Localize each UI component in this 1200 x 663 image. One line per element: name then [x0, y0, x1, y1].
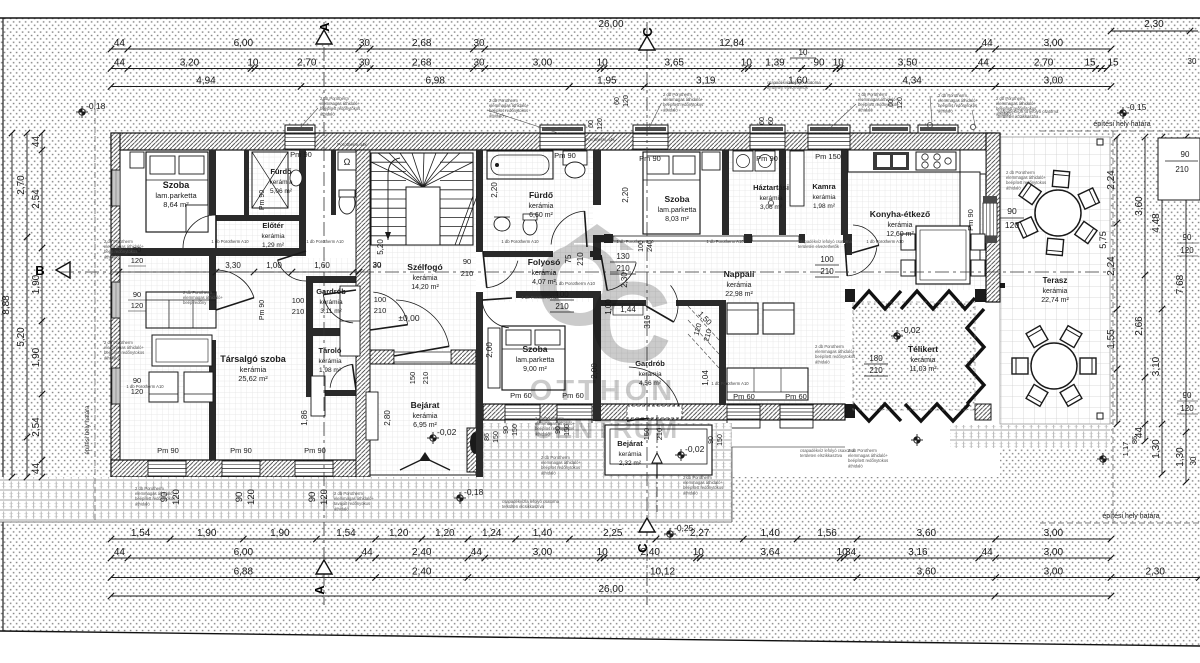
window Pm60 bottom wall (Gardrób2) — [727, 405, 760, 419]
svg-text:5,20: 5,20 — [16, 327, 27, 347]
svg-text:22,98 m²: 22,98 m² — [725, 291, 753, 298]
svg-text:Szélfogó: Szélfogó — [407, 262, 442, 272]
wardrobe dashed Gardrób2 — [688, 306, 719, 368]
svg-text:3,30: 3,30 — [225, 261, 241, 270]
interior wall Konyha/Nappali stub — [845, 242, 852, 255]
bed Szoba3 — [502, 326, 565, 390]
door opening bottom-mid wall — [627, 406, 682, 418]
window Pm90 top wall (Háztartási) — [750, 134, 785, 149]
svg-text:1,90: 1,90 — [31, 347, 42, 367]
svg-text:1 db Porotherm A10: 1 db Porotherm A10 — [501, 239, 539, 244]
svg-text:100: 100 — [374, 295, 387, 304]
svg-text:Pm 90: Pm 90 — [230, 446, 252, 455]
window Pm90 right wall — [983, 203, 997, 236]
svg-text:9,00 m²: 9,00 m² — [523, 366, 547, 373]
interior wall Előtér bottom — [216, 248, 306, 256]
interior wall Fürdő1 left — [244, 150, 249, 215]
svg-text:Nappali: Nappali — [724, 269, 755, 279]
svg-text:3,00: 3,00 — [1044, 547, 1064, 558]
svg-text:2,00: 2,00 — [485, 342, 494, 358]
tiles Társalgó — [120, 258, 209, 460]
svg-text:3,11 m²: 3,11 m² — [320, 308, 342, 315]
svg-text:3,00: 3,00 — [533, 547, 553, 558]
interior wall Szélfogó right — [476, 150, 483, 252]
interior wall Gardrób2 top — [601, 300, 646, 306]
svg-text:2,70: 2,70 — [297, 58, 317, 69]
svg-text:2,30: 2,30 — [1145, 567, 1165, 578]
svg-text:5,06 m²: 5,06 m² — [270, 188, 293, 195]
svg-text:1,00: 1,00 — [266, 261, 282, 270]
svg-text:1 db Porotherm A10: 1 db Porotherm A10 — [711, 381, 749, 386]
svg-text:1 db Porotherm A10: 1 db Porotherm A10 — [866, 239, 904, 244]
svg-text:90: 90 — [1181, 150, 1190, 159]
svg-text:1,86: 1,86 — [300, 410, 309, 426]
svg-text:3,65: 3,65 — [665, 58, 685, 69]
svg-text:Fürdő: Fürdő — [270, 167, 292, 176]
svg-text:120: 120 — [623, 95, 630, 107]
interior wall x593 mid — [593, 235, 601, 260]
tiles Fürdő2+Folyosó — [483, 150, 593, 302]
tiles Gardrób2 — [601, 306, 719, 405]
svg-text:3,60: 3,60 — [1134, 196, 1145, 216]
interior wall Szoba2 bottom opening — [613, 236, 744, 241]
svg-text:2,80: 2,80 — [383, 410, 392, 426]
window schedule box right — [1158, 138, 1200, 200]
svg-text:6,00: 6,00 — [234, 547, 254, 558]
svg-text:120: 120 — [1180, 404, 1194, 413]
svg-text:Ω: Ω — [344, 157, 351, 167]
Télikert corner post NE — [975, 289, 986, 302]
cabinet Tároló — [311, 376, 325, 416]
svg-text:kerámia: kerámia — [269, 179, 293, 186]
interior wall x209 mid — [209, 248, 216, 310]
dining chair left — [901, 234, 915, 250]
svg-text:C: C — [588, 259, 671, 387]
svg-text:120: 120 — [131, 301, 144, 310]
site boundary bottom — [0, 631, 1200, 646]
svg-text:7,68: 7,68 — [1175, 274, 1186, 294]
dining chair left — [901, 260, 915, 276]
paved apron under terrace — [950, 425, 1110, 448]
svg-text:1,40: 1,40 — [760, 528, 780, 539]
svg-text:kerámia: kerámia — [413, 275, 438, 282]
svg-text:-0,02: -0,02 — [685, 444, 705, 454]
svg-text:2,20: 2,20 — [490, 182, 499, 198]
armchair Társalgó 1 — [149, 372, 178, 402]
svg-text:2,30: 2,30 — [1144, 19, 1164, 30]
svg-text:áthidaló: áthidaló — [938, 108, 953, 113]
svg-text:kerámia: kerámia — [618, 451, 642, 458]
interior wall Folyosó bottom — [516, 291, 601, 298]
svg-text:15: 15 — [1107, 58, 1119, 69]
interior wall Fürdő1 right — [299, 150, 306, 251]
interior wall Fürdő2 bottom b — [590, 251, 601, 257]
entry axis — [656, 415, 658, 512]
svg-text:terkülten elcsikkaszíva: terkülten elcsikkaszíva — [502, 504, 545, 509]
leader line 4 — [828, 104, 856, 130]
svg-text:lam.parketta: lam.parketta — [658, 207, 697, 214]
washbasin Fürdő1 — [290, 170, 302, 186]
svg-text:8,03 m²: 8,03 m² — [665, 216, 689, 223]
svg-text:1 db Porotherm A10: 1 db Porotherm A10 — [306, 239, 344, 244]
svg-text:1,30: 1,30 — [1175, 447, 1186, 467]
outer wall left — [111, 133, 120, 477]
armchair Társalgó 2 — [184, 372, 213, 402]
svg-text:A: A — [317, 22, 332, 32]
interior wall Gardrób1/Tároló — [306, 328, 363, 336]
svg-text:2,70: 2,70 — [16, 175, 27, 195]
svg-text:Pm 90: Pm 90 — [554, 151, 576, 160]
svg-text:Konyha-étkező: Konyha-étkező — [870, 209, 930, 219]
svg-text:területén elvezethetők: területén elvezethetők — [798, 244, 840, 249]
washbasin Fürdő2 — [494, 217, 510, 231]
vertical dimension chain — [26, 133, 28, 477]
svg-text:áthidaló: áthidaló — [104, 355, 119, 360]
svg-text:Porotherm 44k: Porotherm 44k — [337, 142, 367, 147]
door Társalgó — [216, 270, 254, 298]
coffee table Társalgó — [152, 335, 212, 366]
wall stub Bejárat1 east — [467, 428, 483, 472]
shutter box above window — [808, 125, 850, 133]
svg-text:1,56: 1,56 — [817, 528, 837, 539]
interior wall Fürdő2 bottom — [483, 251, 553, 257]
svg-text:2,70: 2,70 — [1034, 58, 1054, 69]
svg-text:Pm 90: Pm 90 — [157, 446, 179, 455]
svg-text:építési hely határa: építési hely határa — [85, 405, 91, 455]
interior wall Gardrób1 left — [306, 276, 313, 397]
door Gardrób1 — [323, 295, 353, 323]
leader circle — [768, 200, 773, 205]
garden edge below Télikert — [732, 446, 845, 448]
vertical dimension chain — [41, 133, 43, 477]
interior wall Kamra/Konyha — [841, 150, 848, 235]
interior wall Háztartási/Kamra — [779, 150, 786, 235]
top dim row 3 — [111, 68, 1107, 70]
svg-text:5,20: 5,20 — [376, 239, 385, 255]
staircase Szélfogó — [371, 153, 473, 245]
svg-text:áthidaló: áthidaló — [135, 501, 150, 506]
interior wall Szélfogó right lower — [476, 292, 483, 477]
svg-text:150: 150 — [408, 372, 417, 385]
interior wall post 2 — [744, 234, 752, 243]
svg-text:60: 60 — [759, 117, 766, 125]
dining chair right — [971, 234, 985, 250]
window Pm90 bottom wall 2 — [222, 461, 260, 476]
svg-text:120: 120 — [319, 489, 330, 505]
svg-text:Pm 90: Pm 90 — [304, 446, 326, 455]
terrace edge mark W — [1000, 283, 1005, 288]
kitchen counter side — [960, 172, 980, 260]
terrace table 2 with chairs — [1060, 326, 1082, 348]
svg-text:100: 100 — [292, 296, 305, 305]
svg-text:90: 90 — [307, 492, 318, 503]
svg-text:áthidaló: áthidaló — [858, 107, 873, 112]
svg-text:10: 10 — [741, 58, 753, 69]
svg-text:90: 90 — [708, 436, 715, 444]
washbasin Fürdő2 top — [563, 151, 587, 165]
svg-text:12,84: 12,84 — [719, 38, 744, 49]
svg-text:C: C — [640, 27, 655, 37]
svg-text:44: 44 — [114, 58, 126, 69]
interior wall under Szoba1 — [111, 248, 209, 256]
svg-text:210: 210 — [869, 366, 883, 375]
svg-text:6,88: 6,88 — [234, 567, 254, 578]
építési hely határa left — [94, 100, 96, 522]
door Folyosó-Szélfogó — [487, 261, 518, 288]
door Bejárat1-Szélfogó — [396, 300, 449, 346]
svg-text:3,06 m²: 3,06 m² — [760, 204, 783, 211]
svg-text:120: 120 — [1180, 246, 1194, 255]
építési hely határa right bottom — [1040, 522, 1200, 524]
svg-text:kerámia: kerámia — [1043, 288, 1068, 295]
apron edge — [0, 521, 732, 523]
interior wall Szélfogó left — [356, 150, 370, 477]
svg-text:10: 10 — [833, 58, 845, 69]
tiles Konyha — [848, 150, 986, 290]
svg-text:áthidaló: áthidaló — [104, 254, 119, 259]
terrace corner mark NE — [1097, 139, 1103, 145]
svg-text:2,27: 2,27 — [690, 528, 710, 539]
bottom dim row 1 — [111, 538, 1111, 540]
wardrobe Szoba3 — [488, 328, 500, 388]
svg-text:2,24: 2,24 — [1106, 170, 1117, 190]
interior wall x209 upper — [209, 150, 216, 215]
svg-text:3,00: 3,00 — [533, 58, 553, 69]
svg-text:44: 44 — [978, 58, 990, 69]
bed Szoba1 — [146, 152, 208, 232]
svg-text:területen elszikkasztva: területen elszikkasztva — [800, 453, 843, 458]
sill box below window 4 — [780, 420, 813, 428]
terrace table 1 with chairs — [1052, 170, 1069, 187]
svg-text:3,00: 3,00 — [1044, 528, 1064, 539]
svg-text:120: 120 — [1005, 220, 1019, 230]
bathtub Fürdő2 — [487, 151, 553, 179]
svg-text:2,20: 2,20 — [621, 187, 630, 203]
svg-text:2,54: 2,54 — [31, 417, 42, 437]
shutter box below window — [148, 477, 186, 485]
svg-text:6,95 m²: 6,95 m² — [413, 422, 437, 429]
sofa Nappali — [727, 368, 808, 400]
svg-text:kerámia: kerámia — [318, 358, 342, 365]
svg-text:Pm 90: Pm 90 — [639, 154, 661, 163]
svg-text:25,62 m²: 25,62 m² — [238, 374, 268, 383]
építési hely határa right top — [1040, 130, 1200, 132]
door Szoba3 — [482, 300, 509, 328]
wall Szélfogó/Bejárat1 b — [451, 350, 476, 364]
svg-text:10: 10 — [247, 58, 259, 69]
svg-text:Előtér: Előtér — [262, 221, 283, 230]
svg-text:100: 100 — [820, 255, 834, 264]
sill box below window 2 — [557, 420, 592, 428]
svg-text:44: 44 — [114, 38, 126, 49]
svg-text:1,40: 1,40 — [533, 528, 553, 539]
svg-text:120: 120 — [597, 118, 604, 130]
svg-text:Télikert: Télikert — [908, 344, 938, 354]
right vdim 2 — [1144, 137, 1146, 441]
svg-text:30: 30 — [1188, 57, 1197, 66]
svg-text:90: 90 — [463, 257, 471, 266]
shutter box above window — [285, 125, 315, 133]
svg-text:44: 44 — [114, 547, 126, 558]
svg-text:10: 10 — [693, 547, 705, 558]
svg-text:1,98 m²: 1,98 m² — [319, 367, 342, 374]
leader circle — [927, 122, 932, 127]
svg-text:A: A — [312, 585, 327, 595]
svg-text:44: 44 — [31, 463, 42, 475]
svg-text:3,00: 3,00 — [1044, 38, 1064, 49]
svg-text:B: B — [35, 263, 44, 278]
svg-text:építési hely határa: építési hely határa — [1093, 121, 1150, 128]
interior wall Fürdő1 bottom — [216, 215, 304, 221]
svg-text:3,00: 3,00 — [1044, 76, 1064, 87]
section marker C top — [639, 36, 655, 50]
svg-text:kerámia: kerámia — [812, 194, 836, 201]
svg-text:1,60: 1,60 — [314, 261, 330, 270]
svg-text:áthidaló: áthidaló — [489, 113, 504, 118]
stair void — [406, 187, 440, 245]
svg-text:áthidaló: áthidaló — [334, 506, 349, 511]
svg-text:Szoba: Szoba — [664, 194, 689, 204]
svg-text:áthidaló: áthidaló — [1006, 185, 1021, 190]
svg-text:Gardrób: Gardrób — [316, 287, 346, 296]
svg-text:2,24: 2,24 — [1106, 256, 1117, 276]
svg-text:30: 30 — [473, 38, 485, 49]
svg-text:kerámia: kerámia — [319, 299, 343, 306]
svg-text:3,16: 3,16 — [908, 547, 928, 558]
svg-text:1,24: 1,24 — [482, 528, 502, 539]
stair winder treads — [378, 153, 423, 187]
tiles Háztartási/Kamra — [729, 150, 841, 235]
door Fürdő2 — [551, 211, 584, 244]
interior wall WC partition — [331, 150, 336, 215]
shutter box above window — [870, 125, 910, 133]
svg-text:Terasz: Terasz — [1043, 276, 1068, 285]
window Pm90 top wall (Szoba2) — [633, 134, 668, 149]
dining chair right — [971, 260, 985, 276]
interior wall x593 upper — [593, 150, 601, 205]
window Pm60 bottom wall (Szoba3) — [505, 405, 540, 419]
svg-text:3,00: 3,00 — [1044, 567, 1064, 578]
svg-text:3,60: 3,60 — [917, 528, 937, 539]
section marker B — [56, 262, 70, 278]
svg-text:86: 86 — [484, 433, 491, 441]
Télikert dotted floor — [853, 302, 975, 410]
svg-text:30: 30 — [473, 58, 485, 69]
wardrobe Szoba1 — [186, 205, 208, 232]
svg-text:3,60: 3,60 — [917, 567, 937, 578]
tiles Nappali — [601, 242, 845, 405]
svg-text:kerámia: kerámia — [759, 195, 783, 202]
svg-text:30: 30 — [373, 260, 381, 269]
svg-text:-0,18: -0,18 — [86, 101, 106, 111]
svg-text:Szoba: Szoba — [163, 180, 190, 190]
terrace deck — [1000, 137, 1110, 424]
terrace corner mark SE — [1097, 413, 1103, 419]
tiles Szélfogó — [370, 150, 476, 460]
section line C — [646, 22, 648, 605]
svg-text:2,32 m²: 2,32 m² — [619, 460, 642, 467]
svg-text:14,20 m²: 14,20 m² — [411, 284, 439, 291]
svg-text:Porotherm 44k: Porotherm 44k — [585, 137, 615, 142]
svg-text:210: 210 — [374, 306, 387, 315]
Télikert top zigzag wall — [853, 291, 975, 309]
shoe cabinet Bejárat1 — [366, 392, 378, 440]
interior wall x593 lower — [593, 296, 601, 421]
svg-text:150: 150 — [493, 431, 500, 443]
right vdim 1 — [1116, 137, 1118, 424]
shutter box below window — [222, 477, 260, 485]
svg-text:-0,02: -0,02 — [437, 427, 457, 437]
svg-text:90: 90 — [1007, 206, 1017, 216]
kitchen sink — [873, 152, 909, 170]
section line A — [323, 22, 325, 605]
Télikert bottom zigzag wall — [853, 404, 969, 421]
window left wall 2 — [112, 282, 120, 318]
section marker A top — [316, 30, 332, 44]
svg-text:1,90: 1,90 — [197, 528, 217, 539]
svg-text:1 db Porotherm A10: 1 db Porotherm A10 — [126, 384, 164, 389]
kitchen stove — [916, 152, 956, 170]
vertical dimension chain — [11, 133, 13, 477]
Bejárat1 floor edge — [363, 364, 476, 475]
stair cut line — [455, 196, 477, 245]
outer wall bottom-mid — [483, 404, 845, 420]
paved apron south-west — [0, 477, 483, 522]
interior wall post 4 — [843, 234, 852, 243]
svg-text:4,94: 4,94 — [196, 76, 216, 87]
interior wall Gardrób2 right — [719, 300, 726, 405]
svg-text:CENTRUM: CENTRUM — [533, 414, 679, 444]
shutter box above window — [918, 125, 958, 133]
opening Háztartási — [752, 236, 799, 241]
window Pm90 bottom wall 1 — [148, 461, 186, 476]
svg-text:90: 90 — [234, 492, 245, 503]
svg-text:3,50: 3,50 — [898, 58, 918, 69]
svg-text:Pm 90: Pm 90 — [290, 150, 312, 159]
leader line 3 — [648, 104, 661, 130]
svg-text:1,30: 1,30 — [1151, 439, 1162, 459]
window left wall 1 — [112, 170, 120, 206]
svg-text:-0,02: -0,02 — [901, 325, 921, 335]
svg-text:44: 44 — [982, 38, 994, 49]
svg-text:6,00: 6,00 — [234, 38, 254, 49]
shelves Kamra — [790, 151, 804, 206]
stair walk line — [388, 158, 400, 240]
svg-text:150: 150 — [717, 434, 724, 446]
interior wall Szoba2/Háztartási — [722, 150, 729, 235]
svg-text:-0,18: -0,18 — [464, 487, 484, 497]
svg-text:210: 210 — [421, 372, 430, 385]
svg-text:26,00: 26,00 — [598, 584, 623, 595]
section marker A bottom — [316, 560, 332, 574]
entry arrow Bejárat1 — [400, 458, 450, 470]
apron east edge — [731, 447, 733, 522]
shower Fürdő1 — [252, 152, 288, 208]
svg-text:Bejárat: Bejárat — [411, 400, 440, 410]
svg-text:Tároló: Tároló — [319, 346, 342, 355]
svg-text:áthidaló: áthidaló — [848, 463, 863, 468]
window Pm90 bottom wall 3 — [295, 461, 333, 476]
tiles Előtér/Gardrób col — [216, 215, 306, 460]
svg-text:3,10: 3,10 — [1151, 356, 1162, 376]
svg-text:áthidaló: áthidaló — [541, 470, 556, 475]
kitchen counter — [848, 150, 986, 172]
svg-text:22,74 m²: 22,74 m² — [1041, 297, 1069, 304]
tiles Gardrób/Tároló — [306, 258, 363, 460]
paved apron south-mid — [483, 423, 732, 522]
svg-text:1,55: 1,55 — [1106, 329, 1117, 349]
svg-text:kerámia: kerámia — [529, 203, 554, 210]
